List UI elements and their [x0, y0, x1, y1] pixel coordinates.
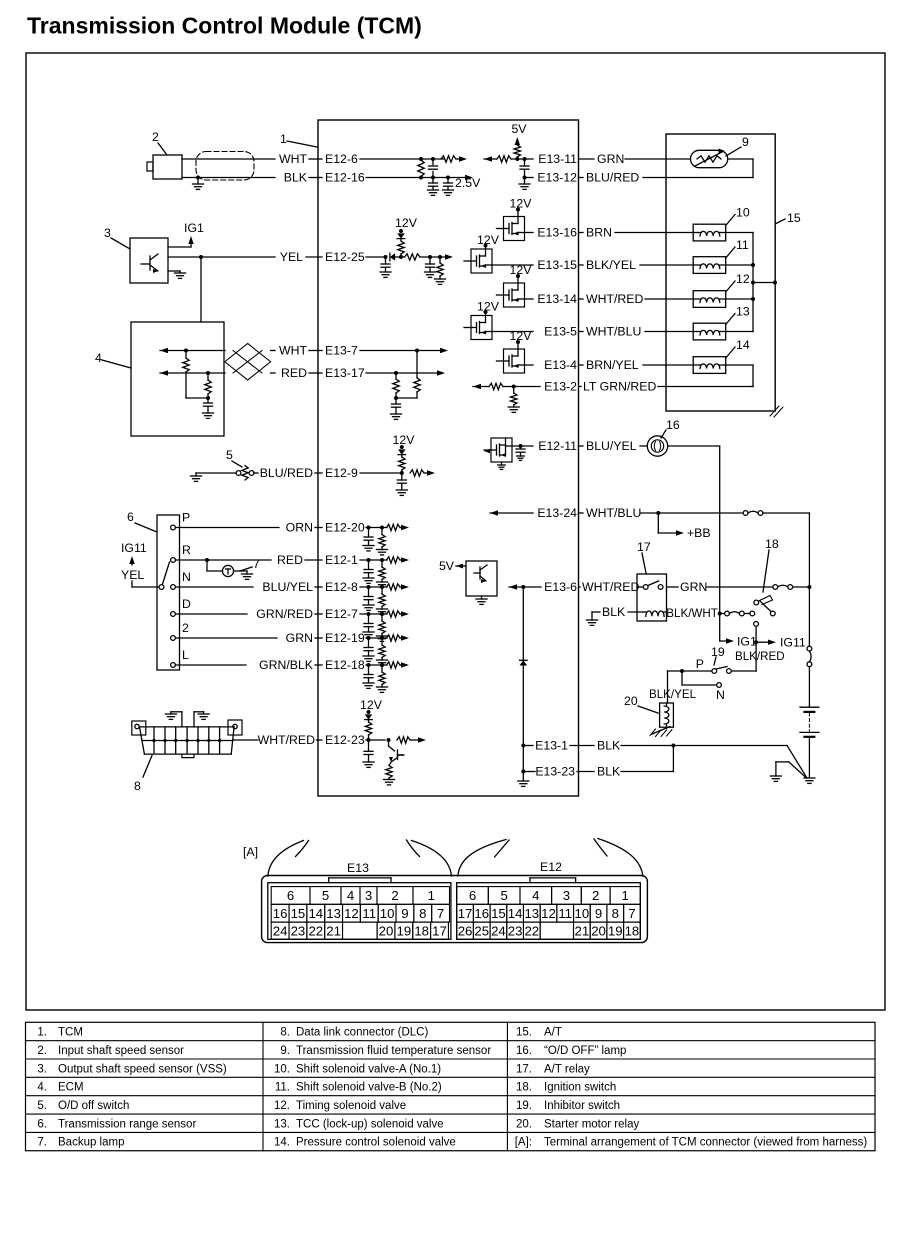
legend table row line [26, 1058, 876, 1060]
svg-text:24: 24 [273, 923, 288, 938]
input capacitor to ground [367, 663, 371, 667]
svg-text:18: 18 [765, 537, 779, 551]
E12 row3 cell 20 [590, 922, 607, 939]
svg-text:E12-23: E12-23 [325, 733, 365, 747]
arrow [400, 559, 402, 561]
svg-text:+BB: +BB [687, 526, 711, 540]
wire driver to pin E13-5 [492, 331, 533, 333]
svg-text:E12-7: E12-7 [325, 607, 358, 621]
svg-text:GRN: GRN [597, 152, 624, 166]
svg-text:4: 4 [347, 888, 354, 903]
svg-text:E13-2: E13-2 [544, 380, 577, 394]
svg-text:IG11: IG11 [121, 541, 147, 555]
svg-text:BRN/YEL: BRN/YEL [586, 358, 639, 372]
MOSFET driver for E13-16 [516, 208, 520, 212]
wire E12-8 into TCM [360, 586, 387, 588]
E13 row1 cell 3 [360, 887, 377, 905]
svg-text:20: 20 [624, 694, 638, 708]
svg-text:8: 8 [134, 779, 141, 793]
svg-text:ECM: ECM [58, 1082, 84, 1094]
hatch at A/T box corner [770, 406, 779, 416]
capacitor E12-11 to ground [519, 444, 523, 448]
junction E13-1 [521, 744, 525, 748]
capacitor E12-25 input to ground [384, 255, 388, 259]
ECM capacitor to ground [207, 398, 209, 403]
E12 row2 cell 10 [574, 904, 591, 922]
svg-text:E13-16: E13-16 [537, 226, 577, 240]
arrow [400, 637, 402, 639]
arrow IG11 tag [756, 641, 762, 643]
svg-text:19: 19 [608, 923, 623, 938]
wire P to BLK/YEL node [668, 670, 712, 672]
wire WHT/BLU to solenoid [645, 331, 693, 333]
wire [579, 364, 584, 366]
wire WHT label to pin [309, 158, 322, 160]
chassis ground (starter relay) [666, 727, 668, 728]
svg-text:BRN: BRN [586, 226, 612, 240]
wire E13-12 internal [525, 177, 534, 179]
svg-text:12: 12 [344, 906, 359, 921]
solenoid 12 return wire [726, 298, 753, 300]
series resistor E12-25 [405, 254, 421, 260]
ground [425, 271, 436, 273]
range sensor lever [163, 562, 170, 584]
svg-text:20: 20 [591, 923, 606, 938]
svg-text:N: N [182, 570, 191, 584]
svg-text:12: 12 [736, 272, 750, 286]
battery bus wire [808, 587, 810, 646]
ground (relay coil) [587, 619, 598, 621]
E13 row3 cell 20 [377, 922, 395, 939]
legend table row line [26, 1095, 876, 1097]
input shaft speed sensor (item 2) [153, 155, 182, 179]
cable swoosh right of E13 [412, 841, 452, 877]
legend table column line 1 [262, 1022, 264, 1150]
backup lamp (item 7) [222, 565, 233, 576]
wire to battery [808, 667, 810, 707]
svg-text:1: 1 [280, 132, 287, 146]
svg-text:N: N [716, 688, 725, 702]
branch to N contact [681, 671, 683, 685]
capacitor E13-11 to E13-12 [523, 157, 527, 161]
svg-text:9: 9 [595, 906, 602, 921]
transistor Q (E12-23 driver) [388, 740, 390, 746]
svg-text:24: 24 [491, 923, 506, 938]
svg-text:26: 26 [458, 923, 473, 938]
range sensor contact 2 [171, 636, 176, 641]
svg-text:12V: 12V [510, 263, 533, 277]
wire E12-1 into TCM [360, 559, 387, 561]
12V diode [400, 445, 404, 449]
svg-text:7: 7 [437, 906, 444, 921]
arrow E13-11 internal [484, 156, 492, 161]
wire E12-23 into TCM [366, 739, 385, 741]
wire E12-18 into TCM [366, 664, 387, 666]
svg-text:Starter motor relay: Starter motor relay [544, 1118, 639, 1130]
input resistor to ground [380, 558, 384, 562]
svg-text:19: 19 [397, 923, 412, 938]
wire [305, 559, 322, 561]
12V pull-up resistor [400, 239, 402, 241]
series resistor [387, 557, 401, 563]
svg-text:E12-20: E12-20 [325, 521, 365, 535]
ground [377, 549, 388, 551]
ground [377, 659, 388, 661]
E12 row1 cell 6 [457, 887, 489, 905]
svg-text:E13-24: E13-24 [537, 506, 577, 520]
svg-text:BLK/YEL: BLK/YEL [649, 688, 697, 701]
ground (E13-23) [518, 780, 529, 782]
series resistor [387, 584, 401, 590]
svg-text:BLU/YEL: BLU/YEL [586, 439, 637, 453]
svg-text:9.: 9. [280, 1045, 290, 1057]
svg-text:Data link connector (DLC): Data link connector (DLC) [296, 1027, 428, 1039]
junction to transistor [387, 738, 391, 742]
input resistor to ground [380, 636, 384, 640]
E12 row1 cell 4 [520, 887, 552, 905]
wire sensor3 lower to ground [168, 270, 180, 272]
ground [377, 686, 388, 688]
svg-text:Transmission range sensor: Transmission range sensor [58, 1118, 196, 1130]
svg-text:E12-16: E12-16 [325, 171, 365, 185]
E12 row2 cell 16 [473, 904, 490, 922]
starter motor relay (item 20) [660, 703, 674, 727]
wire driver to pin E13-15 [492, 264, 533, 266]
wire BLK/WHT relay coil to switch [720, 613, 725, 615]
wire [317, 739, 323, 741]
E13 row3 cell 19 [395, 922, 413, 939]
solenoid valve coil (item 12) [693, 291, 726, 308]
solenoid 10 return wire [726, 232, 753, 234]
svg-text:GRN: GRN [286, 631, 313, 645]
svg-text:13.: 13. [274, 1118, 290, 1130]
wire [579, 586, 581, 588]
svg-text:P: P [696, 657, 704, 671]
svg-text:A/T relay: A/T relay [544, 1063, 590, 1075]
wire WHT/RED to relay contact [638, 586, 644, 588]
svg-text:BLK: BLK [284, 171, 308, 185]
arrow IG1 tag [719, 614, 721, 642]
input capacitor to ground [367, 526, 371, 530]
range sensor contact R [171, 558, 176, 563]
ground [377, 581, 388, 583]
svg-text:“O/D OFF” lamp: “O/D OFF” lamp [544, 1045, 626, 1057]
ground [363, 604, 374, 606]
svg-text:8: 8 [612, 906, 619, 921]
svg-text:22: 22 [524, 923, 539, 938]
arrow into driver [484, 449, 490, 454]
legend table column line 2 [506, 1022, 508, 1150]
wire switch to label [254, 472, 259, 474]
ground (ECM) [203, 412, 214, 414]
IG1 power tag at sensor 3 [188, 236, 193, 244]
input capacitor to ground [367, 558, 371, 562]
E13 row3 cell 21 [325, 922, 343, 939]
svg-text:YEL: YEL [280, 250, 303, 264]
series resistor [387, 635, 401, 641]
svg-text:WHT: WHT [279, 152, 307, 166]
solenoid valve coil (item 13) [693, 323, 726, 340]
comparator transistor glyph [474, 572, 480, 574]
wire battery to ground [808, 737, 810, 778]
svg-text:Transmission Control Module (T: Transmission Control Module (TCM) [27, 13, 422, 39]
svg-text:BLK/WHT: BLK/WHT [666, 607, 718, 620]
svg-text:6: 6 [469, 888, 476, 903]
range sensor contact D [171, 612, 176, 617]
comparator ground [481, 596, 483, 599]
svg-text:14: 14 [308, 906, 323, 921]
svg-text:A/T: A/T [544, 1027, 562, 1039]
svg-text:Output shaft speed sensor (VSS: Output shaft speed sensor (VSS) [58, 1063, 227, 1075]
E12 row2 cell 14 [507, 904, 524, 922]
E12 row3 cell 24 [490, 922, 507, 939]
svg-text:BLU/RED: BLU/RED [586, 171, 639, 185]
ground [517, 455, 525, 457]
junction node to ECM [199, 255, 203, 259]
MOSFET driver for E12-11 [491, 438, 512, 462]
input resistor to ground [380, 585, 384, 589]
E12 row3 cell 22 [523, 922, 540, 939]
svg-text:2.: 2. [37, 1045, 47, 1057]
transmission fluid temperature sensor (item 9) [691, 150, 728, 167]
svg-text:E13-6: E13-6 [544, 580, 577, 594]
svg-text:4: 4 [532, 888, 539, 903]
connector E13 body [268, 883, 451, 940]
backup lamp junction on R wire [205, 558, 209, 562]
svg-text:E12: E12 [540, 860, 562, 874]
E13 row1 cell 2 [377, 887, 413, 905]
svg-text:16: 16 [273, 906, 288, 921]
svg-text:WHT: WHT [279, 344, 307, 358]
svg-text:E13: E13 [347, 861, 369, 875]
solenoid valve coil (item 11) [693, 257, 726, 274]
wire E13-1 internal [523, 745, 533, 747]
svg-text:11: 11 [362, 906, 376, 921]
wire sensor3 signal down to ECM [200, 257, 202, 322]
E13 row3 cell 24 [271, 922, 289, 939]
E13 row1 cell 1 [413, 887, 450, 905]
wire [570, 745, 594, 747]
input resistor to ground [380, 663, 384, 667]
pulldown resistor E13-2 [513, 387, 515, 394]
12V resistor [401, 455, 403, 457]
wire DLC to E12-23 [234, 739, 258, 741]
wire [592, 611, 600, 613]
common wire [396, 397, 417, 399]
range sensor contact N [171, 585, 176, 590]
ground [363, 631, 374, 633]
relay coil [643, 611, 646, 613]
arrow E13-17 internal [437, 370, 445, 375]
svg-text:E13-11: E13-11 [538, 152, 577, 166]
wire [315, 664, 322, 666]
svg-text:20.: 20. [516, 1118, 532, 1130]
svg-text:P: P [182, 511, 190, 525]
12V pull-up diode [399, 229, 403, 233]
svg-text:9: 9 [742, 135, 749, 149]
pulldown resistor E13-7 [415, 349, 419, 353]
inhibitor N contact [717, 683, 722, 688]
E13 row1 cell 4 [341, 887, 360, 905]
wire R to label RED [176, 559, 272, 561]
svg-text:18.: 18. [516, 1082, 532, 1094]
wire WHT/RED to solenoid [645, 298, 693, 300]
E12 row3 cell 26 [457, 922, 474, 939]
svg-text:BLU/RED: BLU/RED [260, 466, 313, 480]
DLC ground stub left [181, 712, 183, 727]
junction +BB [656, 511, 660, 515]
svg-text:13: 13 [326, 906, 341, 921]
wire driver to pin E13-16 [525, 232, 534, 234]
ground [363, 655, 374, 657]
svg-text:6.: 6. [37, 1118, 47, 1130]
E12 row1 cell 3 [552, 887, 582, 905]
wire lamp to IG1 node [668, 445, 720, 447]
svg-text:12V: 12V [510, 329, 533, 343]
svg-text:5: 5 [500, 888, 507, 903]
svg-text:10: 10 [575, 906, 590, 921]
svg-text:2: 2 [592, 888, 599, 903]
svg-text:E13-5: E13-5 [544, 325, 577, 339]
svg-text:E13-15: E13-15 [537, 258, 577, 272]
wire [315, 527, 322, 529]
data link connector DLC (item 8) [132, 721, 146, 735]
E12 row1 cell 1 [610, 887, 640, 905]
ground [391, 413, 402, 415]
ground [380, 271, 391, 273]
wire E13-7 into TCM [360, 350, 441, 352]
wire [579, 298, 584, 300]
12V resistor [368, 720, 370, 722]
svg-text:10.: 10. [274, 1063, 290, 1075]
E12 row2 cell 11 [557, 904, 574, 922]
wire N to label BLU/YEL [176, 586, 254, 588]
svg-text:16.: 16. [516, 1045, 532, 1057]
wire [579, 232, 584, 234]
wire E12-19 into TCM [366, 637, 387, 639]
series resistor [410, 470, 424, 476]
solenoid valve coil (item 10) [693, 224, 726, 241]
O/D off switch (item 5) [236, 471, 241, 476]
svg-text:22: 22 [308, 923, 323, 938]
wire to comparator arrow [424, 472, 428, 474]
svg-text:19: 19 [711, 645, 725, 659]
wire E12-16 into TCM [366, 177, 448, 179]
svg-text:WHT/BLU: WHT/BLU [586, 506, 641, 520]
svg-text:3: 3 [563, 888, 570, 903]
wire WHT/BLU to fuse [641, 512, 743, 514]
E13 row2 cell 14 [307, 904, 325, 922]
svg-text:E12-19: E12-19 [325, 631, 365, 645]
arrow E13-7 internal [440, 348, 448, 353]
ECM resistor common wire [186, 397, 208, 399]
svg-text:14: 14 [508, 906, 523, 921]
capacitor to ground [401, 473, 403, 480]
svg-text:5.: 5. [37, 1100, 47, 1112]
E12 row2 cell 12 [540, 904, 557, 922]
range sensor common contact [159, 585, 164, 590]
junction lamp wire on BLK/WHT [718, 612, 722, 616]
svg-text:3: 3 [104, 226, 111, 240]
diode on E13-6 branch [522, 587, 524, 660]
inhibitor switch (item 19) contacts [712, 669, 717, 674]
svg-text:18: 18 [414, 923, 429, 938]
wire to pin [515, 157, 519, 161]
thermistor return wire [728, 158, 753, 160]
svg-text:6: 6 [287, 888, 294, 903]
ECM pull resistor 1 [184, 349, 188, 353]
bus connector pair [807, 646, 812, 651]
wire ground to switch [196, 472, 236, 474]
E12 row3 cell 19 [607, 922, 624, 939]
svg-text:13: 13 [736, 305, 750, 319]
wire E12-7 into TCM [360, 613, 387, 615]
svg-text:12V: 12V [477, 233, 500, 247]
series resistor [387, 524, 401, 530]
series resistor [397, 737, 410, 743]
svg-text:E12-11: E12-11 [538, 439, 577, 453]
capacitor to ground [395, 398, 397, 404]
wire 2 to label GRN [176, 637, 278, 639]
wire [315, 586, 322, 588]
svg-text:11: 11 [736, 238, 749, 252]
svg-text:Pressure control solenoid valv: Pressure control solenoid valve [296, 1137, 456, 1149]
svg-text:6: 6 [127, 510, 134, 524]
schematic border frame [26, 53, 885, 1010]
svg-text:5V: 5V [511, 122, 527, 136]
resistor between E12-6 and E12-16 lines [419, 157, 423, 161]
ignition switch ST contact [754, 622, 759, 627]
wire sensor3 to IG1 tag [168, 246, 191, 248]
svg-text:E13-14: E13-14 [537, 292, 577, 306]
svg-text:LT GRN/RED: LT GRN/RED [583, 380, 656, 394]
comparator box (E13-6) [466, 561, 497, 596]
svg-text:E12-25: E12-25 [325, 250, 365, 264]
svg-text:E13-12: E13-12 [537, 171, 577, 185]
E12 row2 cell 9 [590, 904, 607, 922]
series resistor E13-11 [497, 156, 511, 162]
junction diode branch [521, 585, 525, 589]
svg-text:E13-23: E13-23 [535, 765, 575, 779]
input capacitor to ground [367, 585, 371, 589]
wire E12-20 into TCM [366, 527, 387, 529]
input resistor to ground [380, 612, 384, 616]
svg-text:GRN/BLK: GRN/BLK [259, 658, 314, 672]
wire [579, 331, 584, 333]
wire [579, 177, 584, 179]
E12 row3 cell 25 [473, 922, 490, 939]
svg-text:5: 5 [226, 448, 233, 462]
wire [579, 445, 584, 447]
wire BLK E13-1 to battery ground [621, 745, 787, 747]
ground [428, 189, 439, 191]
connector housing outline [262, 876, 648, 943]
solenoid 11 return wire [726, 264, 753, 266]
svg-text:16: 16 [666, 418, 680, 432]
svg-text:21: 21 [326, 923, 341, 938]
arrow [400, 527, 402, 529]
ground (chassis left) [770, 775, 781, 777]
ground [508, 406, 519, 408]
connector pair on BLK/WHT [725, 611, 730, 616]
wire to pin [503, 386, 540, 388]
junction [400, 471, 404, 475]
svg-text:Backup lamp: Backup lamp [58, 1137, 124, 1149]
series resistor on E12-6 line [441, 156, 456, 162]
wire BRN/YEL to solenoid [643, 364, 693, 366]
relay contact [643, 585, 648, 590]
wire P to label ORN [176, 527, 280, 529]
